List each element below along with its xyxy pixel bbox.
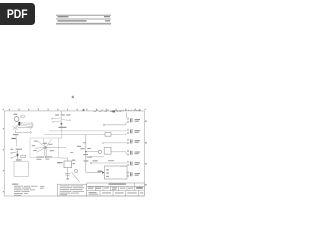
- dashed wire to right: [123, 109, 141, 111]
- wire row upper to K2: [49, 130, 126, 131]
- terminal marks on top bus: [116, 110, 121, 112]
- oval tag M1: [20, 115, 25, 118]
- wire down left bus: [15, 136, 18, 147]
- fuse F1: [18, 122, 20, 126]
- cluster B bottom label: [59, 127, 67, 128]
- relay contact K3: [127, 139, 132, 144]
- J2 pin 1: [106, 169, 109, 170]
- K6 label: [135, 173, 140, 176]
- terminal circles: [31, 123, 33, 128]
- wire from P1: [92, 156, 104, 158]
- label under breaker: [13, 134, 19, 135]
- cluster B label row: [55, 114, 70, 115]
- notes heading: [12, 184, 19, 185]
- relay contact K5: [127, 161, 132, 166]
- title block company name: [109, 183, 127, 184]
- cluster B junction node: [61, 123, 63, 125]
- wire to K3: [104, 142, 127, 144]
- zone letters left margin: [3, 109, 4, 193]
- J2 pin 3: [106, 176, 109, 177]
- connector J2: [104, 166, 127, 179]
- revision table text: [58, 16, 111, 22]
- wires to K5: [92, 163, 127, 166]
- dark tag below: [12, 138, 16, 139]
- fan wires: [35, 139, 66, 157]
- branch terminal circles: [11, 152, 13, 158]
- label under W1: [16, 159, 22, 160]
- label above J2: [108, 160, 114, 161]
- ground: [66, 178, 68, 179]
- main vertical bus mid: [85, 135, 87, 173]
- node W1 label: [10, 149, 22, 150]
- wire to K2: [44, 133, 126, 134]
- tick above bus: [83, 109, 85, 111]
- wire to terminal from X: [18, 127, 30, 129]
- fan hub node: [45, 147, 47, 149]
- wire to K1 lower: [105, 122, 126, 125]
- legend text lines: [60, 186, 84, 196]
- J2 plug label: [98, 171, 103, 172]
- inline box row2: [105, 133, 111, 137]
- wire down to J2: [86, 171, 102, 173]
- lamp component row4: [98, 150, 101, 153]
- relay contact K6: [127, 172, 132, 177]
- fan labels: [32, 141, 54, 152]
- relay contact K4: [127, 150, 132, 155]
- capacitor C1: [65, 174, 70, 176]
- J2 arrowhead: [102, 171, 104, 173]
- terminal circle: [30, 127, 32, 129]
- legend box: [57, 184, 86, 196]
- end bracket: [139, 109, 141, 111]
- switch row on top bus: [94, 110, 113, 111]
- zone letters right margin: [145, 120, 146, 185]
- terminal circle: [30, 132, 32, 134]
- PDF badge: [0, 3, 35, 25]
- title block frame: [87, 183, 145, 196]
- page number: [72, 96, 74, 98]
- relay coil box mid: [104, 147, 111, 154]
- wire fan box to T1: [59, 158, 68, 161]
- notes lines: [14, 186, 38, 196]
- K3 label: [135, 140, 140, 143]
- drawing number cell: [136, 187, 143, 189]
- K5 label: [135, 162, 140, 165]
- wires to terminals right of fuse: [20, 123, 32, 127]
- pilot terminal P1: [90, 156, 92, 158]
- wire out of fan box bottom: [44, 156, 46, 158]
- wires branching left: [12, 152, 17, 158]
- cluster B terminals: [51, 118, 70, 123]
- relay contact K1: [127, 118, 132, 123]
- terminal circle feed K3: [103, 142, 104, 143]
- relay contact K2: [127, 129, 132, 134]
- J2 pin 2: [106, 172, 109, 173]
- wire junction lower: [15, 132, 29, 134]
- fuse F2 dark: [17, 154, 19, 156]
- cluster B stub from top bus: [60, 111, 62, 114]
- K2 label: [135, 130, 140, 133]
- wire W1 down: [16, 150, 18, 161]
- K4 label: [135, 152, 140, 155]
- indicator circle: [74, 169, 77, 172]
- T1 side mark: [73, 163, 75, 164]
- drop wire to K1: [126, 112, 128, 118]
- terminal circle feed K1: [103, 124, 105, 126]
- revision table: [56, 15, 111, 24]
- motor M1 label: [14, 114, 18, 115]
- pilot terminal P2: [90, 162, 92, 164]
- enclosure box left: [14, 161, 28, 176]
- motor M1: [14, 117, 19, 122]
- title block cell texts: [88, 186, 143, 194]
- zone tick digits top: [9, 109, 146, 111]
- wire T1 down: [67, 168, 69, 179]
- breaker X symbol: [13, 125, 18, 133]
- transformer T1 box: [64, 161, 72, 168]
- stray note: [40, 186, 45, 189]
- mid labels: [77, 146, 98, 162]
- label left of T1: [57, 162, 63, 163]
- connector fan box: [30, 138, 59, 158]
- resistor R1: [21, 155, 26, 157]
- labels under fan box: [37, 156, 53, 159]
- K1 label: [135, 119, 140, 122]
- diagonal wire: [72, 172, 80, 182]
- fuse block on top bus: [112, 110, 115, 112]
- junction node mid: [85, 151, 87, 153]
- small text mid: [70, 142, 86, 153]
- schematic frame: [4, 111, 144, 196]
- wire to lamp: [86, 151, 98, 153]
- cluster B wires: [53, 116, 69, 138]
- wire to K4: [111, 152, 126, 155]
- T1 label: [72, 160, 75, 161]
